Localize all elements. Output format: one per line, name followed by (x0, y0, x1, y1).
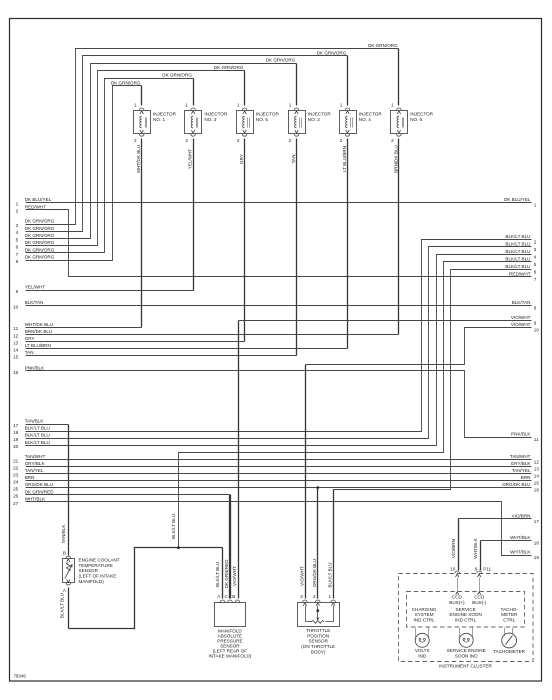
svg-text:7: 7 (16, 252, 19, 257)
svg-text:NO. 6: NO. 6 (410, 117, 422, 122)
svg-text:1: 1 (289, 103, 292, 108)
svg-text:BUS(+): BUS(+) (449, 600, 465, 605)
svg-text:DK BLU/YEL: DK BLU/YEL (504, 197, 531, 202)
node CCD BUS(+) pin 10 (449, 571, 465, 605)
svg-text:BLK/LT BLU: BLK/LT BLU (25, 440, 50, 445)
svg-text:BLK/LT BLU: BLK/LT BLU (171, 514, 176, 539)
svg-text:WHT/BLK: WHT/BLK (473, 537, 478, 558)
svg-text:3: 3 (300, 594, 303, 599)
svg-text:18: 18 (534, 541, 540, 546)
svg-text:GRY: GRY (25, 336, 35, 341)
svg-text:8: 8 (534, 306, 537, 311)
svg-text:1: 1 (237, 103, 240, 108)
svg-text:2: 2 (289, 138, 292, 143)
svg-text:VIO/WHT: VIO/WHT (232, 566, 237, 586)
wire YEL/WHT injector NO. 3 pin 2 to row 9 (16, 139, 194, 295)
svg-text:BRN/DK BLU: BRN/DK BLU (393, 145, 398, 173)
wire DK GRN/ORG row 3 to injector NO. 6 (16, 43, 399, 228)
engine coolant temperature sensor (63, 551, 120, 593)
svg-text:DK GRN/ORG: DK GRN/ORG (111, 80, 141, 85)
svg-text:12: 12 (534, 459, 540, 464)
svg-text:DK GRN/ORG: DK GRN/ORG (317, 50, 347, 55)
MAP sensor (209, 495, 252, 659)
svg-text:DK GRN/ORG: DK GRN/ORG (266, 58, 296, 63)
cluster inner control box (407, 592, 525, 628)
wire RED/WHT row 2 to right row 7 (16, 204, 537, 282)
wire BRN row 24 to right row 15 (13, 475, 539, 486)
svg-text:VIO/WHT: VIO/WHT (511, 322, 531, 327)
svg-text:IND CTRL: IND CTRL (414, 617, 436, 622)
wire TAN/BLK row 17 to coolant sensor pin B (13, 419, 68, 556)
svg-text:8: 8 (16, 259, 19, 264)
svg-text:23: 23 (13, 473, 19, 478)
svg-text:TAN: TAN (25, 350, 34, 355)
wire BLK/LT BLU coolant sensor pin A to MAP pin A and junction (59, 548, 222, 629)
svg-text:DK GRN/ORG: DK GRN/ORG (25, 255, 55, 260)
service engine soon ind ctrl (449, 607, 481, 622)
wire BLK/TAN row 10 to right row 8 (13, 300, 537, 311)
svg-text:BRN: BRN (25, 475, 35, 480)
svg-text:DK GRN/ORG: DK GRN/ORG (368, 43, 398, 48)
svg-text:14: 14 (534, 474, 540, 479)
charging system ind ctrl (412, 607, 437, 622)
svg-text:DK GRN/ORG: DK GRN/ORG (25, 233, 55, 238)
svg-text:DK BLU/YEL: DK BLU/YEL (25, 197, 52, 202)
svg-text:ORG/DK BLU: ORG/DK BLU (502, 482, 530, 487)
svg-text:TAN: TAN (291, 155, 296, 164)
svg-text:3: 3 (16, 223, 19, 228)
volts indicator lamp (415, 628, 430, 659)
svg-text:2: 2 (391, 138, 394, 143)
svg-text:WHT/BLK: WHT/BLK (510, 550, 531, 555)
svg-text:DK GRN/RED: DK GRN/RED (224, 559, 229, 589)
svg-text:WHT/BLK: WHT/BLK (510, 535, 531, 540)
svg-text:TAN/YEL: TAN/YEL (25, 468, 44, 473)
svg-text:78349: 78349 (14, 674, 27, 679)
svg-text:11: 11 (534, 437, 539, 442)
wire DK GRN/ORG row 4 to injector NO. 4 (16, 50, 348, 235)
wire WHT/BLK row 27 to right row 19 (13, 496, 539, 560)
svg-text:NO. 4: NO. 4 (359, 117, 371, 122)
svg-text:BLK/LT BLU: BLK/LT BLU (505, 257, 530, 262)
svg-text:2: 2 (185, 138, 188, 143)
svg-text:4: 4 (534, 255, 537, 260)
svg-text:RED/WHT: RED/WHT (25, 204, 47, 209)
wire BLK/LT BLU right row 5 to sensor ground junction (171, 257, 537, 548)
svg-text:CTRL: CTRL (503, 617, 515, 622)
svg-text:TAN/WHT: TAN/WHT (25, 454, 46, 459)
svg-text:ORG/DK BLU: ORG/DK BLU (25, 482, 53, 487)
svg-text:WHT/DK BLU: WHT/DK BLU (25, 322, 53, 327)
svg-text:19: 19 (534, 555, 540, 560)
svg-text:ENGINE COOLANT: ENGINE COOLANT (79, 557, 120, 562)
svg-text:VIO/BRN: VIO/BRN (451, 539, 456, 558)
svg-text:MANIFOLD): MANIFOLD) (79, 579, 105, 584)
wire BLK/LT BLU right row 6 to throttle sensor pin 1 (328, 264, 537, 599)
svg-text:7: 7 (534, 277, 537, 282)
svg-text:1: 1 (16, 201, 19, 206)
wire VIO/BRN right row 17 to instrument cluster pin 10 (450, 514, 539, 572)
svg-text:B: B (63, 551, 66, 556)
node CCD BUS(-) pin 9 (472, 571, 487, 605)
svg-text:INTAKE MANIFOLD): INTAKE MANIFOLD) (209, 654, 252, 659)
svg-text:13: 13 (13, 340, 19, 345)
injector NO. 5 (237, 103, 280, 144)
svg-text:VIO/BRN: VIO/BRN (512, 514, 531, 519)
svg-text:BRN: BRN (521, 475, 531, 480)
wire DK GRN/ORG row 5 to injector NO. 2 (16, 58, 297, 243)
svg-text:TAN/YEL: TAN/YEL (512, 468, 531, 473)
svg-text:DK GRN/ORG: DK GRN/ORG (214, 65, 244, 70)
svg-text:4: 4 (16, 230, 19, 235)
svg-text:VIO/WHT: VIO/WHT (511, 315, 531, 320)
svg-text:17: 17 (13, 423, 19, 428)
wire BLK/LT BLU row 18 to right row 2 (13, 234, 537, 435)
wire DK GRN/ORG row 7 to injector NO. 3 (16, 73, 194, 257)
svg-text:21: 21 (13, 458, 19, 463)
svg-text:BLK/LT BLU: BLK/LT BLU (505, 234, 530, 239)
wire VIO/WHT right row 9 to MAP sensor pin B (232, 315, 537, 599)
svg-text:BUS(-): BUS(-) (472, 600, 487, 605)
wire BLK/LT BLU row 19 to right row 3 (13, 241, 537, 442)
svg-text:INJECTOR: INJECTOR (308, 111, 332, 116)
svg-text:BRN/DK BLU: BRN/DK BLU (25, 329, 53, 334)
wire DK GRN/RED row 26 to MAP sensor pin C (13, 489, 229, 598)
svg-text:19: 19 (13, 437, 19, 442)
svg-text:NO. 1: NO. 1 (153, 117, 165, 122)
svg-text:LT BLU/BRN: LT BLU/BRN (342, 146, 347, 172)
svg-text:5: 5 (16, 238, 19, 243)
svg-text:1: 1 (340, 103, 343, 108)
wire WHT/BLK right row 18 to instrument cluster pin 9 (473, 535, 539, 572)
svg-text:2: 2 (313, 594, 316, 599)
tachometer gauge (493, 628, 525, 654)
svg-text:17: 17 (534, 519, 540, 524)
wire PNK/BLK row 16 to right row 11 (13, 365, 539, 442)
svg-text:26: 26 (13, 494, 19, 499)
svg-text:LT BLU/BRN: LT BLU/BRN (25, 343, 51, 348)
svg-text:PNK/BLK: PNK/BLK (25, 365, 45, 370)
svg-text:POSITION: POSITION (307, 633, 329, 638)
svg-text:BLK/LT BLU: BLK/LT BLU (328, 562, 333, 587)
svg-text:1: 1 (185, 103, 188, 108)
svg-text:BLK/LT BLU: BLK/LT BLU (215, 562, 220, 587)
injector NO. 4 (340, 103, 383, 144)
svg-text:10: 10 (13, 305, 19, 310)
svg-text:11: 11 (13, 326, 18, 331)
svg-text:20: 20 (13, 444, 19, 449)
svg-text:NO. 3: NO. 3 (204, 117, 216, 122)
wire BRN/DK BLU injector NO. 6 pin 2 to row 12 (13, 139, 398, 339)
svg-text:BODY): BODY) (311, 649, 326, 654)
injector NO. 6 (391, 103, 434, 144)
svg-text:2: 2 (237, 138, 240, 143)
svg-text:YEL/WHT: YEL/WHT (25, 285, 46, 290)
wire BLK/LT BLU row 20 to right row 4 (13, 249, 537, 449)
svg-text:2: 2 (340, 138, 343, 143)
svg-text:3: 3 (534, 247, 537, 252)
wire TAN/WHT row 21 to right row 12 (13, 454, 539, 465)
wire GRY/BLK row 22 to right row 13 (13, 461, 539, 472)
svg-text:16: 16 (13, 370, 19, 375)
injector NO. 1 (134, 103, 177, 144)
svg-text:INJECTOR: INJECTOR (153, 111, 177, 116)
svg-text:15: 15 (13, 355, 19, 360)
svg-text:SENSOR: SENSOR (79, 568, 99, 573)
svg-text:(ON THROTTLE: (ON THROTTLE (301, 644, 335, 649)
svg-text:NO. 2: NO. 2 (308, 117, 320, 122)
svg-text:6: 6 (16, 245, 19, 250)
svg-text:9: 9 (534, 321, 537, 326)
svg-text:INSTRUMENT CLUSTER: INSTRUMENT CLUSTER (439, 663, 492, 668)
wire VIO/WHT right row 10 to throttle sensor pin 3 (299, 322, 539, 598)
wire DK GRN/ORG row 6 to injector NO. 5 (16, 65, 245, 250)
svg-text:1: 1 (391, 103, 394, 108)
svg-text:YEL/WHT: YEL/WHT (188, 149, 193, 170)
wire ORG/DK BLU row 25 to right row 16 (13, 482, 539, 493)
svg-text:GRY/BLK: GRY/BLK (25, 461, 46, 466)
svg-text:SENSOR: SENSOR (308, 639, 328, 644)
svg-text:IND: IND (418, 653, 427, 658)
svg-text:(LEFT OF INTAKE: (LEFT OF INTAKE (79, 574, 117, 579)
svg-text:9: 9 (16, 289, 19, 294)
svg-text:DK GRN/ORG: DK GRN/ORG (162, 73, 192, 78)
wire TAN injector NO. 2 pin 2 to row 15 (13, 139, 296, 360)
wire ORG/DK BLU branch to throttle sensor pin 2 (312, 486, 319, 598)
svg-text:1: 1 (328, 594, 331, 599)
svg-text:24: 24 (13, 480, 19, 485)
instrument cluster dashed box (399, 574, 534, 669)
svg-text:THROTTLE: THROTTLE (306, 628, 330, 633)
svg-text:WHT/DK BLU: WHT/DK BLU (136, 145, 141, 173)
svg-text:10: 10 (450, 567, 456, 572)
svg-text:2: 2 (534, 239, 537, 244)
tachometer ctrl (501, 607, 519, 622)
svg-text:VIO/WHT: VIO/WHT (299, 566, 304, 586)
svg-text:NO. 5: NO. 5 (256, 117, 268, 122)
svg-text:DK GRN/ORG: DK GRN/ORG (25, 219, 55, 224)
service engine soon indicator lamp (447, 628, 486, 659)
svg-text:6: 6 (534, 270, 537, 275)
injector NO. 3 (185, 103, 228, 144)
svg-text:25: 25 (13, 487, 19, 492)
svg-text:IND CTRL: IND CTRL (455, 617, 477, 622)
svg-text:TACHOMETER: TACHOMETER (493, 649, 525, 654)
svg-text:SOON IND: SOON IND (455, 653, 478, 658)
wire LT BLU/BRN injector NO. 4 pin 2 to row 14 (13, 139, 347, 353)
svg-text:PNK/BLK: PNK/BLK (511, 432, 531, 437)
svg-text:22: 22 (13, 465, 19, 470)
svg-text:14: 14 (13, 348, 19, 353)
svg-text:INJECTOR: INJECTOR (359, 111, 383, 116)
svg-text:P11: P11 (483, 567, 491, 572)
wire WHT/DK BLU injector NO. 1 pin 2 to row 11 (13, 139, 141, 332)
svg-text:BLK/LT BLU: BLK/LT BLU (25, 426, 50, 431)
svg-text:9: 9 (475, 567, 478, 572)
svg-text:BLK/LT BLU: BLK/LT BLU (25, 433, 50, 438)
svg-text:TEMPERATURE: TEMPERATURE (79, 563, 113, 568)
svg-text:1: 1 (534, 203, 537, 208)
svg-text:WHT/BLK: WHT/BLK (25, 496, 46, 501)
svg-text:GRY/BLK: GRY/BLK (511, 461, 532, 466)
svg-text:DK GRN/ORG: DK GRN/ORG (25, 240, 55, 245)
wire GRY injector NO. 5 pin 2 to row 13 (13, 139, 244, 346)
wire DK GRN/ORG row 8 to injector NO. 1 (16, 80, 142, 264)
svg-text:2: 2 (134, 138, 137, 143)
injector NO. 2 (289, 103, 332, 144)
svg-text:10: 10 (534, 328, 540, 333)
svg-text:BLK/TAN: BLK/TAN (512, 300, 531, 305)
svg-text:BLK/TAN: BLK/TAN (25, 300, 44, 305)
throttle position sensor (298, 594, 340, 654)
wire TAN/YEL row 23 to right row 14 (13, 468, 539, 479)
svg-text:GRY: GRY (239, 154, 244, 164)
svg-text:INJECTOR: INJECTOR (204, 111, 228, 116)
svg-text:BLK/LT BLU: BLK/LT BLU (505, 249, 530, 254)
junction node sensor ground (177, 546, 180, 549)
svg-text:BLK/LT BLU: BLK/LT BLU (505, 264, 530, 269)
svg-text:1: 1 (134, 103, 137, 108)
svg-text:12: 12 (13, 333, 19, 338)
svg-text:BLK/LT BLU: BLK/LT BLU (505, 241, 530, 246)
svg-text:B: B (232, 594, 235, 599)
svg-text:TAN/BLK: TAN/BLK (25, 419, 45, 424)
svg-text:BLK/LT BLU: BLK/LT BLU (59, 593, 64, 618)
svg-text:DK GRN/ORG: DK GRN/ORG (25, 226, 55, 231)
wire DK BLU/YEL row 1 (16, 197, 537, 208)
svg-text:5: 5 (534, 262, 537, 267)
svg-text:16: 16 (534, 488, 540, 493)
svg-text:TAN/WHT: TAN/WHT (510, 454, 531, 459)
svg-text:TAN/BLK: TAN/BLK (61, 524, 66, 544)
svg-text:INJECTOR: INJECTOR (410, 111, 434, 116)
svg-text:2: 2 (16, 209, 19, 214)
svg-text:DK GRN/RED: DK GRN/RED (25, 489, 55, 494)
svg-text:13: 13 (534, 467, 540, 472)
svg-text:18: 18 (13, 430, 19, 435)
sheet number (14, 674, 27, 679)
svg-text:DK GRN/ORG: DK GRN/ORG (25, 248, 55, 253)
svg-text:27: 27 (13, 501, 19, 506)
svg-text:RED/WHT: RED/WHT (509, 272, 531, 277)
svg-text:ORG/DK BLU: ORG/DK BLU (312, 559, 317, 587)
svg-text:INJECTOR: INJECTOR (256, 111, 280, 116)
svg-text:15: 15 (534, 481, 540, 486)
